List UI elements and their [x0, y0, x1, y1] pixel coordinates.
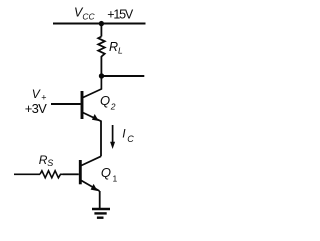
svg-text:S: S: [47, 158, 53, 168]
Q1 collector lead: [81, 156, 101, 165]
svg-text:1: 1: [113, 173, 118, 183]
svg-text:+15V: +15V: [107, 8, 134, 22]
wire: VCC dot down to RL: [100, 24, 102, 37]
node collector junction dot: [99, 73, 104, 78]
wire: Q2 base lead: [51, 103, 81, 105]
transistor Q2: [82, 76, 101, 121]
ground: [92, 209, 110, 218]
Q2 base bar: [81, 91, 84, 119]
resistor RS: [40, 171, 63, 178]
node VCC junction dot: [99, 21, 104, 26]
Q1 emitter lead with arrow: [81, 181, 99, 192]
Q2 emitter lead with arrow: [83, 113, 101, 122]
wire: input stub left of RS: [14, 173, 40, 175]
wire: Q1 emitter down to ground: [99, 191, 101, 209]
wire: collector node to right (output): [102, 75, 145, 77]
wire: RS to Q1 base: [63, 173, 79, 175]
svg-text:2: 2: [110, 102, 116, 112]
svg-text:C: C: [127, 134, 134, 144]
svg-text:V: V: [32, 87, 41, 101]
Q2 collector lead: [83, 76, 101, 98]
svg-text:+3V: +3V: [25, 101, 47, 116]
Q1 base bar: [79, 160, 82, 184]
wire: Q2 emitter down to Q1 collector: [100, 121, 102, 157]
wire: RL down to collector node: [100, 58, 102, 76]
resistor RL: [98, 37, 105, 59]
wire: VCC top rail: [53, 23, 146, 25]
transistor Q1: [80, 156, 101, 191]
svg-text:Q: Q: [101, 165, 111, 180]
arrow IC current: [112, 125, 114, 144]
svg-text:Q: Q: [100, 93, 110, 108]
